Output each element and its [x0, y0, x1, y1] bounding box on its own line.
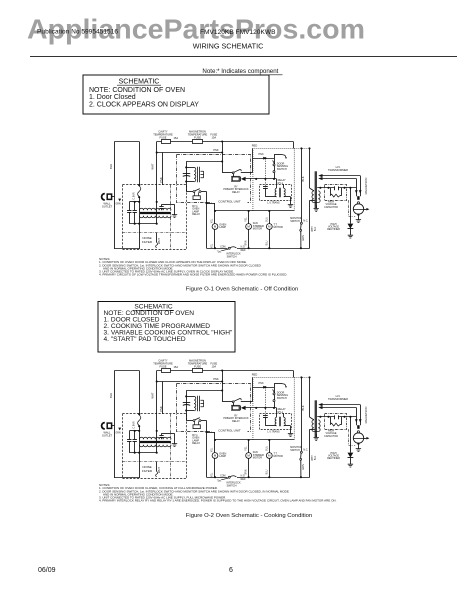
- svg-text:FMV120KB FMV120KWB: FMV120KB FMV120KWB: [200, 29, 276, 36]
- svg-text:6: 6: [229, 567, 233, 574]
- svg-text:SCHEMATIC: SCHEMATIC: [119, 79, 160, 86]
- horizontal rule: [30, 56, 457, 58]
- svg-text:06/09: 06/09: [38, 567, 56, 574]
- figure O-2 schematic (reuse of figure group): [102, 359, 370, 488]
- figure O-1 schematic: [102, 130, 370, 259]
- svg-text:Publication No 5995451516: Publication No 5995451516: [37, 29, 118, 36]
- schematic note box 1: [83, 75, 269, 114]
- svg-text:1. Door Closed: 1. Door Closed: [89, 94, 136, 101]
- svg-text:Figure O-2 Oven Schematic - Co: Figure O-2 Oven Schematic - Cooking Cond…: [186, 513, 312, 519]
- notes under figure O-2: [99, 483, 337, 503]
- svg-text:Note:* Indicates component: Note:* Indicates component: [202, 68, 278, 75]
- notes under figure O-1: [99, 257, 287, 277]
- svg-text:Figure O-1 Oven Schematic - Of: Figure O-1 Oven Schematic - Off Conditio…: [186, 287, 299, 293]
- svg-text:2. CLOCK APPEARS ON DISPLAY: 2. CLOCK APPEARS ON DISPLAY: [89, 102, 199, 109]
- svg-text:NOTE: CONDITION OF OVEN: NOTE: CONDITION OF OVEN: [89, 87, 185, 94]
- schematic note box 2: [98, 302, 235, 353]
- svg-text:4. PRIMARY CIRCUITS OF LOW VOL: 4. PRIMARY CIRCUITS OF LOW VOLTAGE TRANS…: [99, 273, 287, 277]
- svg-text:4. PRIMARY INTERLOCK RELAY RY: 4. PRIMARY INTERLOCK RELAY RY AND RELAY …: [99, 499, 337, 503]
- svg-text:4. "START" PAD TOUCHED: 4. "START" PAD TOUCHED: [104, 336, 186, 343]
- svg-text:WIRING SCHEMATIC: WIRING SCHEMATIC: [193, 42, 264, 51]
